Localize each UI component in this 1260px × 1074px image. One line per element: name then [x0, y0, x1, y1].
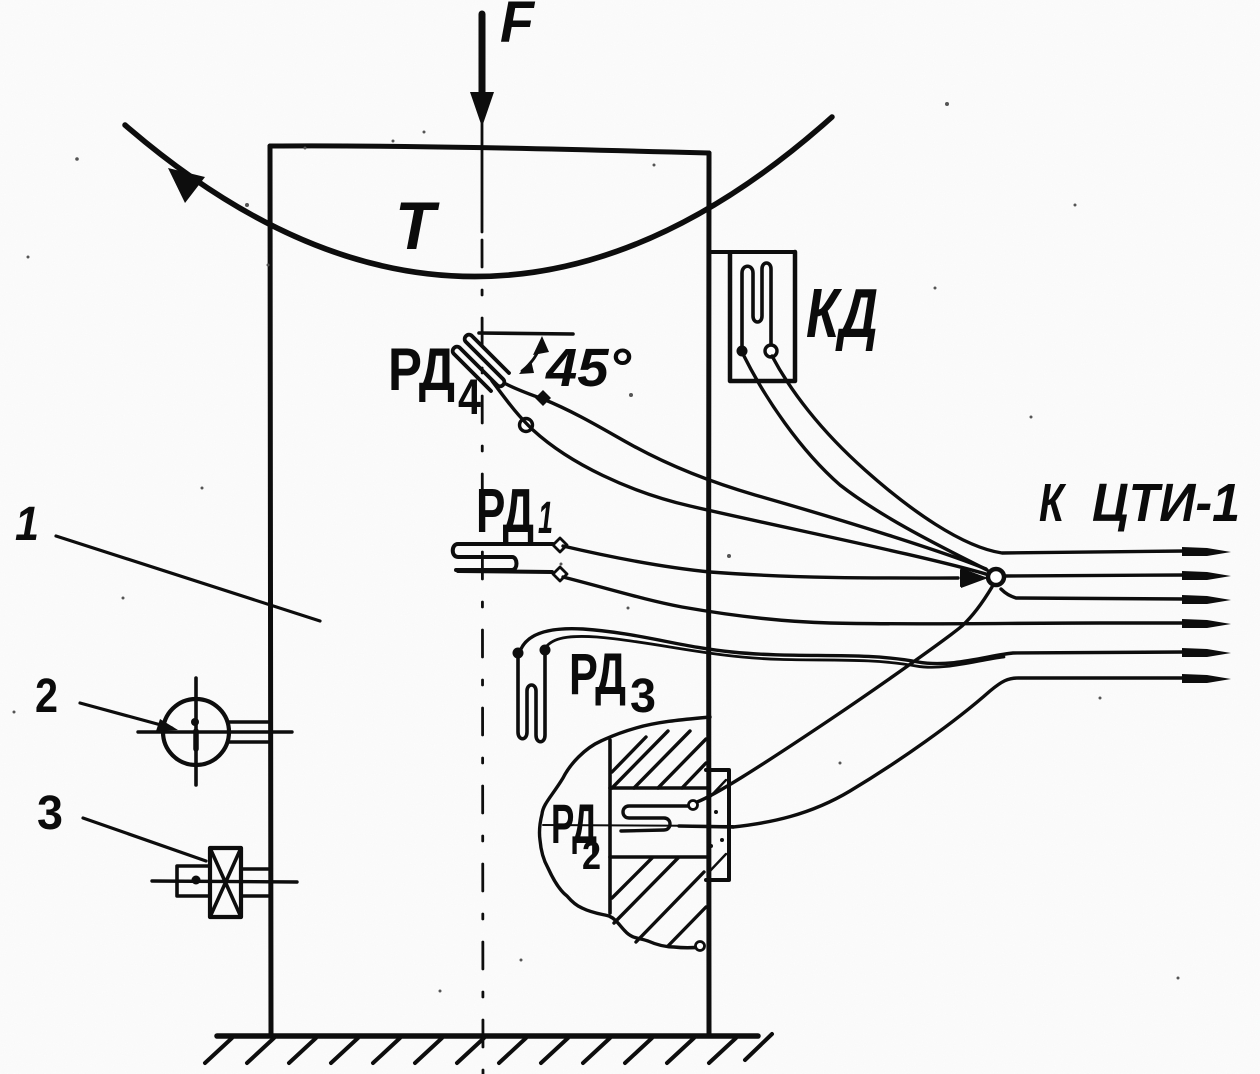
svg-text:F: F [500, 0, 535, 55]
svg-text:КД: КД [806, 274, 878, 352]
svg-text:1: 1 [538, 492, 553, 543]
svg-text:РД: РД [476, 477, 534, 546]
svg-text:РД: РД [388, 336, 455, 403]
svg-text:К: К [1039, 473, 1067, 533]
svg-text:ЦТИ-1: ЦТИ-1 [1092, 473, 1240, 533]
svg-text:2: 2 [582, 834, 601, 878]
svg-text:РД: РД [569, 642, 626, 707]
svg-text:3: 3 [37, 787, 63, 840]
svg-text:T: T [395, 188, 440, 264]
svg-text:4: 4 [458, 369, 481, 425]
svg-text:45°: 45° [545, 338, 631, 398]
svg-text:2: 2 [35, 670, 58, 723]
svg-text:3: 3 [630, 670, 656, 723]
svg-text:1: 1 [15, 498, 39, 551]
